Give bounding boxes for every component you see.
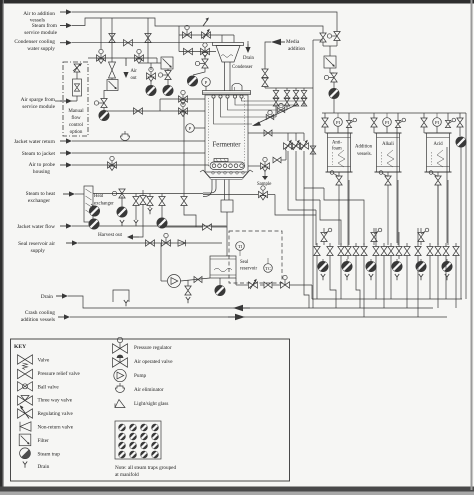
key manifold box <box>115 421 161 459</box>
ball valve on diagonal 2 <box>268 110 272 114</box>
regulating valve seal outlet <box>249 282 258 288</box>
manifold valve x399 <box>398 243 400 247</box>
fermenter port lines <box>242 98 305 101</box>
wire filter outlet <box>104 91 107 99</box>
wire vessel 1 side line <box>348 185 350 245</box>
wire vessel 3 outlet drop <box>437 185 439 245</box>
wire air to addition vessels header <box>72 12 337 30</box>
filter left of fermenter <box>161 57 173 69</box>
manifold steam trap x421 <box>420 259 422 261</box>
harvest elbow <box>203 180 216 194</box>
svg-text:Pressure relief valve: Pressure relief valve <box>38 370 81 377</box>
svg-text:Valve: Valve <box>38 358 51 364</box>
flow arrow jacket water return <box>60 140 68 142</box>
ball valve on diagonal 1 <box>279 103 283 107</box>
fermenter jacket dotted <box>208 98 210 168</box>
wire y58 line <box>88 57 157 59</box>
flow arrow drain <box>56 295 64 297</box>
flow arrow on drain bus <box>233 305 243 311</box>
manifold steam trap x447 <box>446 259 448 261</box>
filter right column <box>324 56 336 68</box>
air operated valve vessel 1 <box>346 120 351 127</box>
valve column C below HX line <box>161 194 163 197</box>
pressure regulator on seal air <box>162 240 171 246</box>
svg-text:option: option <box>70 130 83 135</box>
air operated valve vessel 2 <box>395 120 400 127</box>
air operated valve air right <box>334 32 340 41</box>
three way valve right mid <box>259 191 268 197</box>
svg-text:Three way valve: Three way valve <box>38 398 73 404</box>
wire branch x100 <box>100 18 102 49</box>
sample three way valve <box>261 163 270 169</box>
svg-text:Ball valve: Ball valve <box>38 384 60 390</box>
svg-text:Air operated valve: Air operated valve <box>134 359 173 365</box>
svg-text:Drain: Drain <box>243 56 255 61</box>
svg-text:Filter: Filter <box>38 438 50 444</box>
svg-text:at manifold: at manifold <box>115 471 139 478</box>
wire media manifold <box>265 87 313 89</box>
valve branch x112 <box>109 34 115 43</box>
svg-text:Drain: Drain <box>38 464 50 470</box>
flow arrow crash cooling <box>58 316 66 318</box>
key symbol light-sight glass <box>115 400 125 408</box>
svg-text:TC: TC <box>265 266 271 271</box>
wire vessel 1 bottom outlet <box>338 172 340 176</box>
wire manifold drops to buses <box>316 259 318 299</box>
svg-text:control: control <box>69 123 84 128</box>
svg-text:Alkali: Alkali <box>382 142 394 147</box>
wire vessel 2 side line <box>397 185 399 245</box>
key manifold traps <box>119 424 126 431</box>
svg-text:PI: PI <box>385 120 390 125</box>
svg-text:Crash cooling: Crash cooling <box>25 310 55 316</box>
manifold steam trap x397 <box>396 259 398 261</box>
temperature controller TC <box>264 264 273 273</box>
condenser drain arrow <box>247 44 249 49</box>
wire vessel 2 outlet drop <box>387 185 389 245</box>
manifold steam trap x371 <box>370 259 372 261</box>
wire vessel 1 outlet drop <box>338 185 340 245</box>
flow arrow steam from service module <box>60 25 68 27</box>
key symbol air operated valve <box>113 358 128 367</box>
flow arrow seal air <box>66 242 74 244</box>
valve pump discharge <box>194 277 202 283</box>
air operated valve under filter <box>101 99 107 108</box>
wire seal vessel outlet <box>236 284 248 286</box>
svg-text:Pump: Pump <box>134 373 147 379</box>
svg-text:Pressure regulator: Pressure regulator <box>134 345 172 351</box>
key symbol pressure regulator <box>113 344 128 353</box>
wire fermenter right mid <box>203 194 258 196</box>
svg-text:Jacket water flow: Jacket water flow <box>17 223 55 230</box>
media manifold valve 1 <box>275 88 277 90</box>
three way valve condenser mid <box>201 48 210 54</box>
manifold valve x430 <box>429 243 431 247</box>
steam trap under HX air valve <box>117 207 127 217</box>
wire vessel 3 bottom outlet <box>437 172 439 176</box>
valve column B below HX line <box>149 194 151 197</box>
wire drain line <box>68 296 433 308</box>
svg-text:flow: flow <box>71 116 81 121</box>
addition vessel 2 shell <box>377 133 400 172</box>
wire seal air down <box>160 243 162 281</box>
valve steam right <box>320 33 326 42</box>
wire condenser risers <box>221 35 223 43</box>
svg-text:Steam to jacket: Steam to jacket <box>22 151 56 157</box>
scan border left <box>0 0 3 490</box>
wire to trap <box>333 82 335 88</box>
wire vessel 1 feed drop <box>324 113 326 118</box>
steam trap under sparge valve <box>103 108 105 111</box>
key symbol non-return valve <box>20 422 31 431</box>
valve above vessel 3 <box>421 118 427 127</box>
wire cluster horizontal y64 <box>140 62 161 64</box>
valve on cooling line x128 <box>124 40 133 46</box>
wire steam to jacket <box>72 152 205 154</box>
svg-text:Addition: Addition <box>355 145 373 150</box>
manifold valve x317 <box>316 243 318 247</box>
wire motor to seal line <box>226 212 228 227</box>
valve on seal air <box>146 240 155 246</box>
svg-text:water supply: water supply <box>27 46 55 52</box>
scan border top <box>0 0 474 4</box>
valve on sparge line <box>134 108 143 114</box>
svg-text:Media: Media <box>286 39 300 45</box>
wire branch x148 <box>147 18 149 63</box>
wire vessel 3 side line <box>447 185 449 245</box>
key symbol filter <box>19 434 31 446</box>
three way valve at vessel wall upper <box>179 96 188 102</box>
pressure regulator pair media <box>262 69 268 78</box>
fermenter bottom dish <box>203 170 250 178</box>
svg-text:Note: all steam traps grouped: Note: all steam traps grouped <box>115 465 176 471</box>
steam trap right column <box>329 88 339 98</box>
manifold valve x438 <box>437 243 439 247</box>
steam trap column C <box>157 218 167 228</box>
manifold valve x391 <box>390 243 392 247</box>
svg-text:Jacket water return: Jacket water return <box>14 139 55 145</box>
valve seal outlet <box>264 282 272 288</box>
three way valve cluster left <box>147 73 156 79</box>
air operated valve manifold 3 <box>420 228 422 232</box>
fermenter motor <box>221 200 233 212</box>
wire harvest out <box>139 204 143 237</box>
three way valve on probe air <box>108 162 117 168</box>
seal dashed enclosure <box>229 231 282 283</box>
wire manual box vertical <box>76 72 78 79</box>
manifold valve x384 <box>383 243 385 247</box>
manifold steam trap x347 <box>346 259 348 261</box>
wire steam drop right <box>322 30 324 33</box>
flow arrow media addition <box>271 39 281 45</box>
svg-text:Steam from: Steam from <box>32 22 58 29</box>
key symbol drain <box>23 462 25 465</box>
flow arrow condenser cooling <box>60 42 68 44</box>
valve far right header <box>459 113 461 118</box>
wire jacket water flow <box>72 225 227 227</box>
pressure gauge vessel 1 <box>334 118 343 127</box>
fermenter drive shaft <box>224 180 226 201</box>
wire steam to HX <box>75 193 84 195</box>
key symbol air eliminator <box>116 386 125 393</box>
manual flow control option dashed box <box>63 62 88 136</box>
wire manifold top connections <box>347 127 349 243</box>
svg-text:Manual: Manual <box>68 109 84 114</box>
svg-text:Drain: Drain <box>41 294 54 300</box>
condenser body <box>216 46 240 63</box>
air operated valve manifold 2 <box>373 228 375 232</box>
manifold valve x330 <box>329 243 331 247</box>
temperature indicator TI <box>236 242 245 251</box>
scan border bottom <box>0 487 474 492</box>
steam trap x196 <box>187 76 197 86</box>
svg-text:reservoir: reservoir <box>240 267 257 272</box>
svg-text:supply: supply <box>31 248 46 254</box>
wire cluster stubs <box>150 63 152 70</box>
flow arrow air sparge <box>60 100 68 102</box>
wire condenser top line <box>179 34 234 36</box>
rotameter in manual box <box>73 79 82 96</box>
manifold steam trap x323 <box>322 259 324 261</box>
air operated valve condenser line <box>183 32 192 38</box>
wire manifold feed lines <box>315 210 317 245</box>
manifold valve x348 <box>347 243 349 247</box>
flow arrow air to addition vessels <box>60 11 68 13</box>
svg-text:Air to probe: Air to probe <box>29 162 56 168</box>
media manifold valve 4 <box>303 88 305 90</box>
steam trap cluster left <box>146 85 156 95</box>
valve above vessel 2 <box>371 118 377 127</box>
svg-text:Condenser cooling: Condenser cooling <box>14 39 55 45</box>
pressure gauge vessel 2 <box>383 118 392 127</box>
crash cooling valve 1 <box>284 143 293 149</box>
vent arrow on header <box>203 19 208 26</box>
wire seal to crash bus <box>311 285 313 299</box>
svg-text:Seal: Seal <box>240 260 249 265</box>
fermenter body <box>205 95 248 172</box>
valve above vessel 1 <box>322 118 328 127</box>
air operated valve cluster right <box>165 71 171 80</box>
wire jacket water return <box>72 140 205 142</box>
key symbol pressure relief valve <box>18 369 33 378</box>
manifold valve x456 <box>455 243 457 247</box>
svg-text:Seal reservoir air: Seal reservoir air <box>18 241 55 247</box>
wire diagonal inoculation line <box>254 104 298 125</box>
wire sample line <box>248 165 260 167</box>
svg-text:addition: addition <box>288 46 305 52</box>
bottom valve vessel 1 <box>336 176 342 185</box>
svg-text:KEY: KEY <box>14 344 26 350</box>
steam trap far right <box>456 137 466 147</box>
fermenter probe belt <box>210 162 245 170</box>
wire vessel 2 bottom outlet <box>387 172 389 176</box>
wire right edge drop <box>465 113 467 250</box>
steam trap under seal vessel <box>219 278 221 285</box>
non-return valve on seal air <box>178 240 186 246</box>
manifold valve x446 <box>445 243 447 247</box>
svg-text:Light/sight glass: Light/sight glass <box>134 401 168 407</box>
relief valve branch x112 <box>111 58 113 62</box>
key symbol ball valve <box>18 382 33 391</box>
wire sparge line lower <box>103 110 105 111</box>
svg-text:Heat: Heat <box>94 194 104 199</box>
svg-text:PI: PI <box>336 120 341 125</box>
valve fermenter right <box>264 130 272 136</box>
wire vessel 3 feed drop <box>423 113 425 118</box>
steam trap on jacket flow line <box>89 219 99 229</box>
wire x205 to trap <box>193 68 205 75</box>
condenser flange <box>213 43 244 46</box>
air out arrow <box>125 58 127 66</box>
svg-text:vessels.: vessels. <box>357 152 372 157</box>
wire air to probe <box>72 164 209 166</box>
seal reservoir vessel <box>210 256 236 278</box>
svg-text:exchanger: exchanger <box>28 198 50 204</box>
three way valve sparge b <box>135 55 144 61</box>
three way valve at vessel wall lower <box>179 108 188 114</box>
flow arrow steam to HX <box>63 193 71 195</box>
wire bus upper <box>312 298 462 300</box>
svg-text:Fermenter: Fermenter <box>213 142 242 149</box>
svg-text:out: out <box>131 76 138 81</box>
valve right of sample <box>273 157 281 163</box>
air operated valve right column <box>331 73 337 82</box>
svg-text:Condenser: Condenser <box>232 65 253 70</box>
key symbol steam trap <box>20 448 31 459</box>
wire x205 column <box>204 55 206 59</box>
svg-text:Regulating valve: Regulating valve <box>38 411 74 417</box>
svg-text:foam: foam <box>332 147 342 152</box>
flow arrow harvest out <box>131 236 139 238</box>
flow arrow air to probe <box>60 164 68 166</box>
drain funnel <box>113 290 129 302</box>
valve under motor <box>203 224 212 230</box>
air operated valve seal outlet <box>281 282 290 288</box>
svg-text:Anti-: Anti- <box>332 141 342 146</box>
wire condenser mid line <box>179 51 216 53</box>
scan border right <box>471 0 473 490</box>
fermenter top ports <box>212 95 215 98</box>
svg-text:exchanger: exchanger <box>94 202 114 207</box>
svg-text:TI: TI <box>238 244 243 249</box>
addition vessel 1 shell <box>328 133 351 172</box>
svg-text:Air to addition: Air to addition <box>23 11 55 17</box>
wire media line <box>265 42 271 69</box>
flow arrow steam to jacket <box>60 152 68 154</box>
svg-text:service module: service module <box>24 30 57 36</box>
regulating valve condenser line <box>202 32 211 38</box>
valve column A below HX line <box>135 194 137 197</box>
svg-text:Acid: Acid <box>433 142 443 147</box>
wire crash cooling bus <box>70 316 447 318</box>
crash cooling valve 3 <box>300 143 309 149</box>
wire seal air supply <box>78 242 222 244</box>
wire sparge upper branch <box>160 98 205 100</box>
air operated valve x205 <box>202 59 208 68</box>
media manifold valve 2 <box>286 88 288 90</box>
svg-text:P: P <box>205 80 208 85</box>
pressure gauge fermenter left <box>186 124 195 133</box>
wire pump to vessel <box>181 278 211 281</box>
svg-text:Steam to heat: Steam to heat <box>26 191 56 197</box>
key box <box>11 339 290 481</box>
valve column under pump line <box>187 280 189 286</box>
wire crash drops <box>288 151 316 210</box>
svg-text:P: P <box>189 126 192 131</box>
condenser outlet <box>224 62 226 91</box>
wire HX outlet <box>93 193 203 195</box>
wire trap to header <box>333 99 335 113</box>
wire riser x179 <box>178 26 180 52</box>
wire filter down <box>329 68 331 73</box>
bottom valve vessel 3 <box>435 176 441 185</box>
valve branch x148 <box>145 34 151 43</box>
pressure gauge vessel 3 <box>433 118 442 127</box>
air operated valve manifold 1 <box>323 228 325 232</box>
three way valve sparge a <box>97 55 106 61</box>
valve on x313 line <box>310 146 316 154</box>
manifold valve x341 <box>340 243 342 247</box>
addition vessel 3 shell <box>427 133 450 172</box>
flow arrow on crash bus <box>235 314 245 320</box>
key symbol valve <box>18 355 33 364</box>
manifold valve x407 <box>406 243 408 247</box>
wire condenser cooling line <box>72 42 213 44</box>
pump seal <box>168 275 181 288</box>
steam trap at HX outlet <box>91 204 94 207</box>
wire air sparge line <box>55 100 77 102</box>
manifold valve x376 <box>375 243 377 247</box>
valve on condenser mid line <box>184 48 193 54</box>
bottom valve vessel 2 <box>385 176 391 185</box>
air operated valve right of HX <box>119 189 125 198</box>
svg-text:housing: housing <box>33 169 50 175</box>
steam trap cluster right <box>163 85 173 95</box>
valve above harvest elbow <box>140 196 146 205</box>
wire crash cooling feed <box>284 132 304 134</box>
wire vessel 2 feed drop <box>373 113 375 118</box>
crash cooling valve 2 <box>292 143 301 149</box>
flow arrow jacket water flow <box>60 225 68 227</box>
wire fermenter right upper <box>248 132 284 134</box>
wire steam header <box>72 18 323 30</box>
regulating valve in manual box <box>74 64 80 72</box>
wire media riser x313 <box>312 40 314 88</box>
pressure gauge fermenter top <box>202 78 211 87</box>
svg-text:Steam trap: Steam trap <box>38 451 61 457</box>
wire branch x112 <box>111 18 113 58</box>
valve column D below HX line <box>183 111 185 197</box>
svg-text:Air: Air <box>131 69 138 74</box>
svg-text:Non-return valve: Non-return valve <box>38 425 74 431</box>
filter branch x112 <box>107 80 118 91</box>
key symbol pump <box>114 369 126 381</box>
heat exchanger <box>84 186 93 222</box>
media manifold valve 3 <box>295 88 297 90</box>
air operated valve vessel 3 <box>445 120 450 127</box>
fermenter skirt <box>200 170 203 172</box>
manifold valve x364 <box>363 243 365 247</box>
fermenter dome fitting <box>232 83 242 90</box>
svg-text:Air eliminator: Air eliminator <box>134 387 164 393</box>
wire right column merge <box>323 45 337 47</box>
air header to addition vessels <box>322 112 466 114</box>
air eliminator on return line <box>121 134 130 141</box>
fermenter top plate <box>203 91 251 95</box>
key symbol three way valve <box>18 396 33 405</box>
svg-text:Air sparge from: Air sparge from <box>21 96 56 103</box>
svg-text:service module: service module <box>22 104 55 110</box>
